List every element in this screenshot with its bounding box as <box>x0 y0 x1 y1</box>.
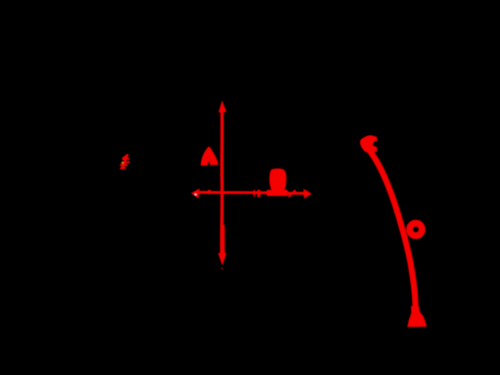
notch of label A <box>207 161 211 166</box>
label B <box>269 169 286 191</box>
x-axis shaft <box>196 192 306 193</box>
yellow speck in scribble <box>122 162 124 164</box>
scribble mark top-left <box>121 155 129 169</box>
y-axis lower thicker stroke <box>220 225 224 254</box>
y-axis bottom arrowhead <box>218 253 227 266</box>
dot below y-axis bottom arrowhead <box>221 268 223 270</box>
x-axis right arrowhead <box>304 189 312 199</box>
y-axis top arrowhead <box>219 101 227 113</box>
curve top arrowhead <box>360 135 378 153</box>
tick mark 1 on x-axis <box>253 190 255 197</box>
tick mark 2 on x-axis <box>257 190 260 197</box>
x-axis left arrowhead <box>191 189 200 199</box>
slanted tick on x-axis <box>289 190 296 197</box>
white speck near left arrowhead <box>195 194 197 196</box>
thick base bar under B <box>267 190 289 196</box>
curve bottom foot <box>407 306 426 327</box>
curve loop <box>410 223 423 236</box>
small blob on x-axis <box>207 190 211 194</box>
curve shaft <box>369 150 416 307</box>
label A <box>201 146 218 166</box>
y-axis shaft <box>220 107 224 256</box>
